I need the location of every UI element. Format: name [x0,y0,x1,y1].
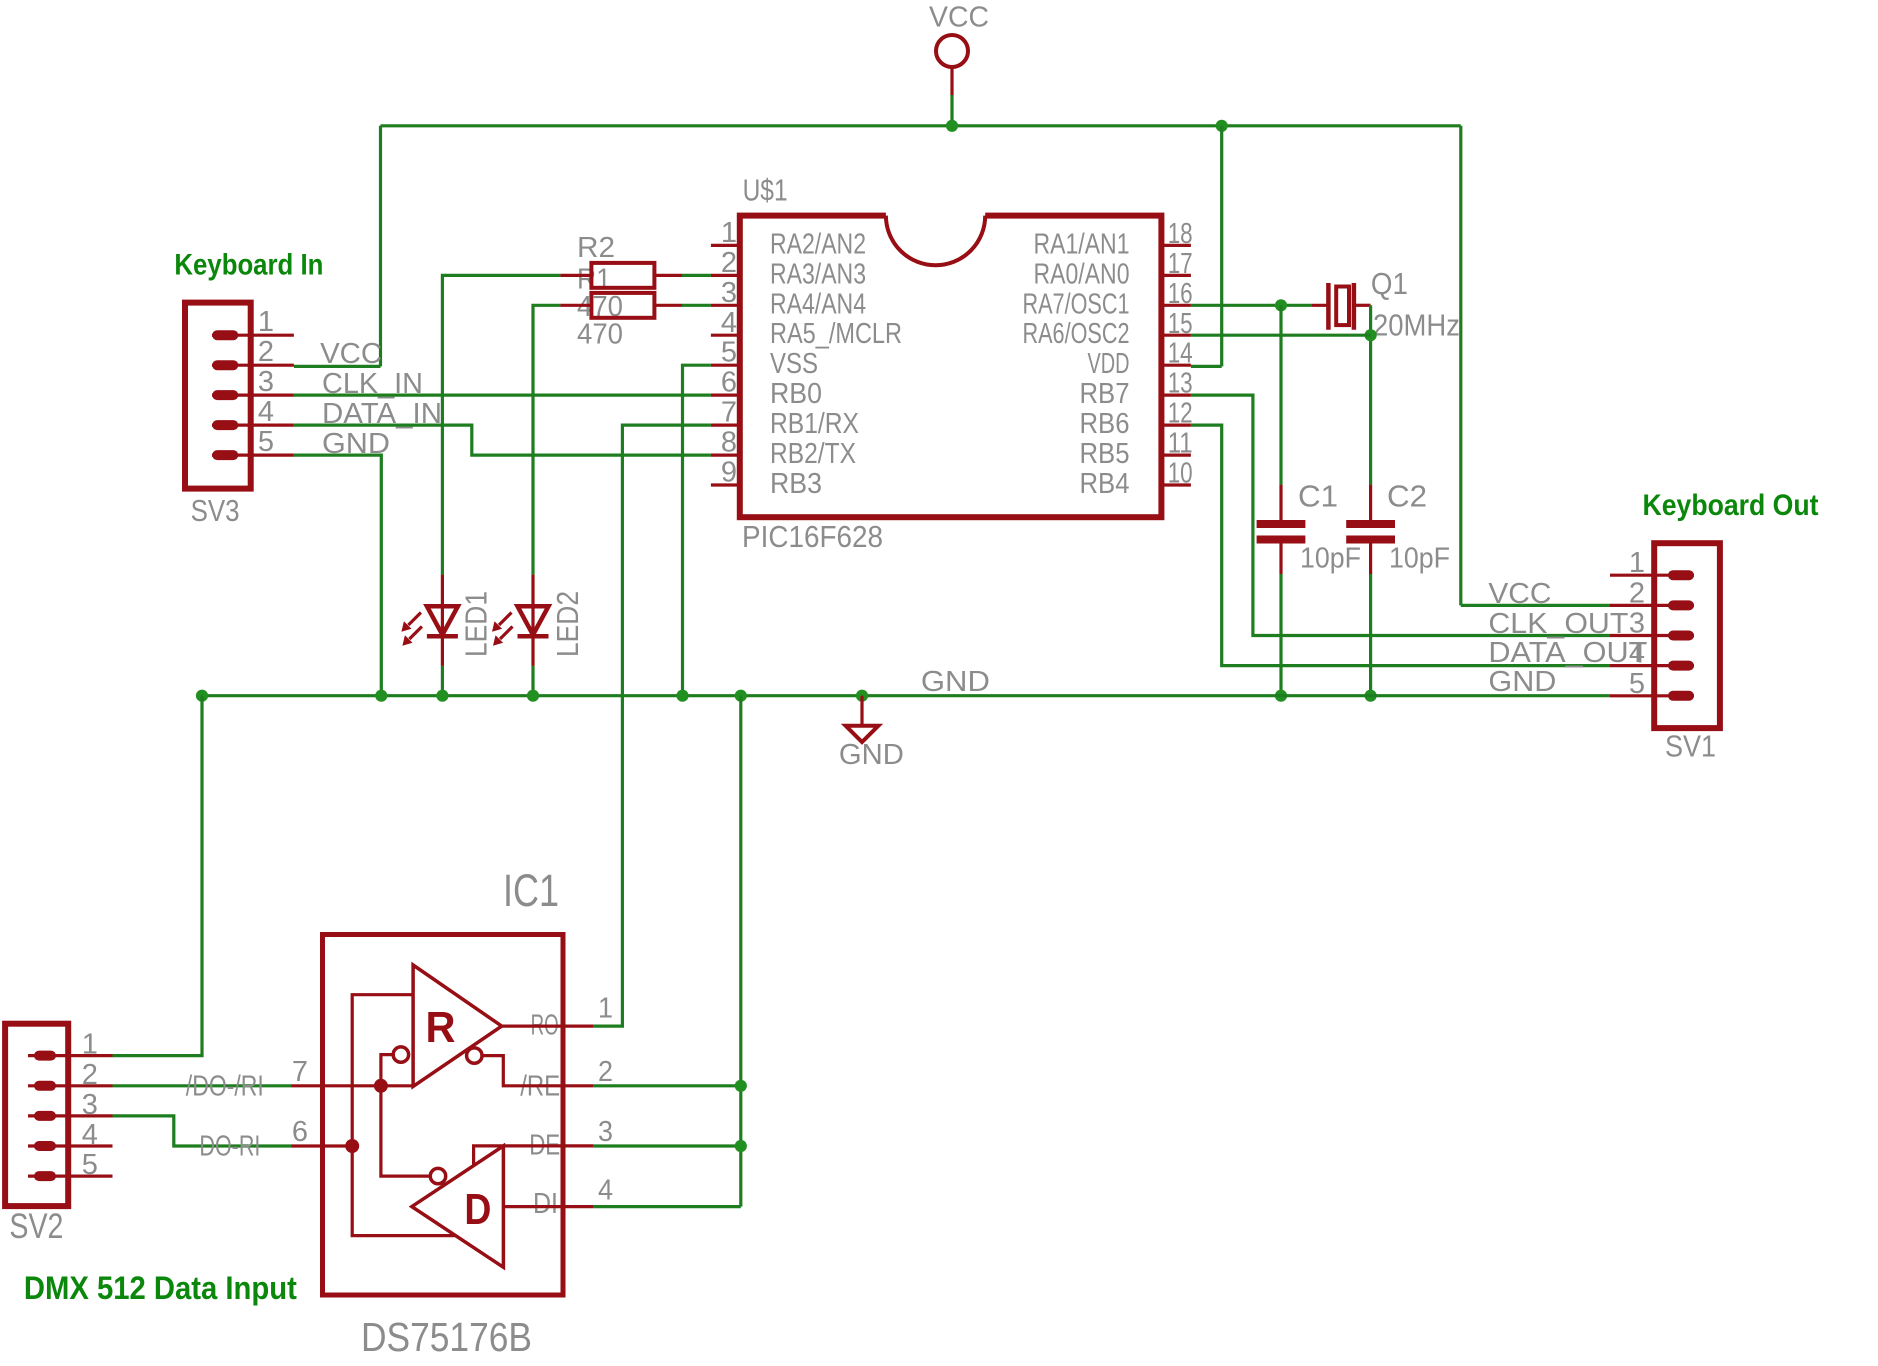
svg-text:Q1: Q1 [1371,266,1408,301]
svg-text:2: 2 [258,336,274,368]
connector SV1 pin 1 lead [1610,574,1694,577]
connector SV1 body [1654,543,1720,728]
svg-text:20MHz: 20MHz [1373,308,1460,343]
connector SV3 pin 5 lead [212,454,294,457]
wire RB1/RX to IC1 RO [593,425,711,1026]
svg-text:IC1: IC1 [503,865,559,916]
led LED2 anode pin [531,575,534,637]
junction VCC at VDD branch [1216,120,1228,132]
svg-text:DI: DI [533,1188,558,1220]
wire GND bus [202,694,1610,697]
ic IC1 pin 6 line [292,1144,353,1147]
svg-text:10pF: 10pF [1389,543,1450,575]
svg-text:7: 7 [721,397,737,429]
capacitor C1 bottom pin [1279,544,1282,575]
wire SV3 pin2 VCC [294,365,381,368]
power symbol VCC pin stem [950,68,953,97]
svg-text:7: 7 [292,1056,308,1088]
power symbol VCC circle [936,35,968,67]
wire C1 to GND bus [1279,574,1282,696]
connector SV2 body [5,1024,68,1206]
connector SV2 pin 3 pad [39,1111,51,1121]
connector SV3 pin 1 lead [212,334,294,337]
svg-text:RB2/TX: RB2/TX [770,438,856,470]
connector SV2 pin 1 lead [28,1054,113,1057]
capacitor C2 plate 1 [1346,520,1395,528]
wire R1 to PIC pin3 [682,304,711,307]
svg-text:2: 2 [721,247,737,279]
capacitor C2 top pin [1369,485,1372,521]
connector SV3 pin 4 pad [217,420,233,430]
ic U$1 pin 3 stub [711,304,740,307]
svg-text:15: 15 [1168,308,1193,340]
svg-text:RA5_/MCLR: RA5_/MCLR [770,318,902,350]
led LED2 cathode bar [518,634,549,639]
crystal Q1 left plate [1326,283,1331,330]
svg-text:DO-RI: DO-RI [199,1131,260,1163]
wire DATA_IN SV3 pin4 [294,425,711,455]
led LED2 triangle [518,606,549,635]
crystal Q1 right pin [1355,304,1370,307]
svg-text:/DO-/RI: /DO-/RI [186,1071,264,1103]
ic U$1 pin 11 stub [1161,454,1191,457]
svg-text:SV1: SV1 [1665,729,1716,764]
svg-text:Keyboard Out: Keyboard Out [1643,489,1819,522]
svg-text:GND: GND [1488,666,1556,698]
led LED2 cathode pin [531,636,534,666]
svg-text:4: 4 [258,396,274,428]
svg-text:LED1: LED1 [459,591,494,657]
led LED2 arrow 2 [493,627,513,646]
svg-text:1: 1 [721,217,737,249]
svg-text:18: 18 [1168,218,1193,250]
svg-text:8: 8 [721,427,737,459]
ic IC1 receiver triangle [413,965,502,1087]
svg-text:RA3/AN3: RA3/AN3 [770,258,866,290]
resistor R1 right pin [654,304,682,307]
wire RA4 net R1 left [533,305,560,574]
junction GND bus VSS [676,690,688,702]
svg-text:VSS: VSS [770,348,818,380]
svg-text:3: 3 [82,1089,98,1121]
svg-text:470: 470 [577,319,623,351]
svg-text:RA2/AN2: RA2/AN2 [770,228,866,260]
ground symbol triangle [846,726,879,742]
ic IC1 junction pin7 [374,1079,388,1093]
connector SV2 pin 5 pad [39,1171,51,1181]
crystal Q1 left pin [1311,304,1327,307]
led LED1 anode pin [441,575,444,637]
wire VCC rail right vertical to SV1 [1459,126,1462,606]
wire VDD vertical [1220,126,1223,367]
connector SV3 pin 3 lead [212,394,294,397]
ic IC1 driver enable bubble [430,1168,445,1183]
wire CLK_IN SV3 pin3 to RB0 [294,394,711,397]
svg-text:2: 2 [598,1056,613,1088]
wire VCC rail left vertical to SV3 [379,126,382,367]
svg-text:1: 1 [258,306,274,338]
svg-text:6: 6 [292,1116,308,1148]
ic IC1 DE path [474,1146,594,1165]
ic U$1 pin 8 stub [711,454,740,457]
svg-text:3: 3 [1629,608,1645,640]
wire DATA_OUT from RB6 [1191,425,1610,665]
connector SV3 pin 1 pad [217,330,233,340]
wire /RE to GND net [593,1084,740,1087]
junction OSC1 C1 branch [1275,299,1287,311]
connector SV1 pin 3 lead [1610,634,1694,637]
ic U$1 pin 13 stub [1161,394,1191,397]
svg-text:RB1/RX: RB1/RX [770,408,859,440]
svg-text:D: D [464,1185,491,1234]
ic U$1 pin 12 stub [1161,424,1191,427]
svg-text:DATA_OUT: DATA_OUT [1488,637,1647,669]
wire VSS pin5 to GND [683,365,711,696]
svg-text:1: 1 [598,993,613,1025]
ic IC1 junction pin6 [345,1139,359,1153]
ic U$1 pin 5 stub [711,364,740,367]
ic U$1 pin 2 stub [711,274,740,277]
led LED1 arrow 1 [401,613,421,632]
svg-text:LED2: LED2 [550,591,585,657]
wire C2 to GND bus [1369,574,1372,696]
wire GND from SV3 pin5 [294,455,381,696]
capacitor C1 plate 2 [1257,536,1306,544]
wire OSC1 pin16 [1191,304,1311,307]
wire VCC to SV1 pin2 [1461,604,1610,607]
ic IC1 DI line [503,1205,593,1208]
junction OSC2 pin15 [1365,329,1377,341]
svg-text:5: 5 [82,1149,98,1181]
svg-text:RA6/OSC2: RA6/OSC2 [1023,318,1130,350]
svg-text:GND: GND [839,739,904,771]
svg-text:RB0: RB0 [770,378,822,410]
ic U$1 pin 7 stub [711,424,740,427]
ic IC1 pin 7 line [292,1084,414,1087]
junction GND bus LED2 [527,690,539,702]
ic U$1 notch arc [886,216,985,266]
wire R2 to PIC pin2 [682,274,711,277]
connector SV3 pin 2 lead [212,364,294,367]
svg-text:CLK_OUT: CLK_OUT [1488,608,1628,640]
svg-text:RA7/OSC1: RA7/OSC1 [1023,288,1130,320]
svg-text:RB6: RB6 [1080,408,1130,440]
ic U$1 pin 16 stub [1161,304,1191,307]
junction C2 GND [1365,690,1377,702]
svg-text:C1: C1 [1298,479,1338,514]
connector SV1 pin 4 lead [1610,664,1694,667]
connector SV1 pin 5 pad [1673,691,1689,701]
svg-text:11: 11 [1168,428,1193,460]
wire OSC2 vertical to C2 [1369,305,1372,484]
ic IC1 /RE path [482,1056,593,1086]
connector SV2 pin 2 lead [28,1084,113,1087]
svg-text:VCC: VCC [929,2,989,34]
ic IC1 receiver input line [352,995,455,1236]
ic U$1 notch erase [886,212,985,265]
ic IC1 body [323,935,564,1296]
svg-text:3: 3 [258,366,274,398]
ic U$1 pin 18 stub [1161,244,1191,247]
ic U$1 pin 6 stub [711,394,740,397]
svg-text:14: 14 [1168,338,1193,370]
svg-text:C2: C2 [1387,479,1427,514]
svg-text:10: 10 [1168,458,1193,490]
ic U$1 pin 10 stub [1161,483,1191,486]
svg-text:RA0/AN0: RA0/AN0 [1034,258,1130,290]
connector SV3 body [185,303,251,489]
junction DE [735,1140,747,1152]
svg-text:RB5: RB5 [1080,438,1130,470]
svg-text:DS75176B: DS75176B [361,1314,532,1360]
svg-text:1: 1 [82,1029,98,1061]
ic IC1 RO line [502,1024,594,1027]
ic IC1 receiver output-enable bubble [467,1048,482,1063]
capacitor C2 plate 2 [1346,536,1395,544]
connector SV2 pin 5 lead [28,1174,113,1177]
svg-text:3: 3 [598,1116,613,1148]
svg-text:SV2: SV2 [9,1207,63,1246]
svg-text:13: 13 [1168,368,1193,400]
junction VCC at stem [946,120,958,132]
connector SV2 pin 3 lead [28,1114,113,1117]
svg-text:DMX 512 Data Input: DMX 512 Data Input [24,1270,297,1306]
svg-text:2: 2 [1629,577,1645,609]
junction C1 GND [1275,690,1287,702]
ic U$1 pin 9 stub [711,483,740,486]
junction GND bus LED1 [436,690,448,702]
svg-text:RB4: RB4 [1080,468,1130,500]
connector SV2 pin 1 pad [39,1051,51,1061]
ic U$1 pin 17 stub [1161,274,1191,277]
svg-text:RA1/AN1: RA1/AN1 [1034,228,1130,260]
connector SV1 pin 2 pad [1673,600,1689,610]
svg-text:4: 4 [598,1175,613,1207]
ic IC1 receiver enable bubble [393,1047,408,1062]
connector SV2 pin 2 pad [39,1081,51,1091]
connector SV3 pin 2 pad [217,360,233,370]
ic U$1 pin 1 stub [711,244,740,247]
ic U$1 pin 4 stub [711,334,740,337]
svg-text:VCC: VCC [320,338,382,370]
svg-text:R2: R2 [577,232,615,264]
svg-text:R: R [426,1003,456,1052]
svg-text:U$1: U$1 [743,173,788,208]
svg-text:GND: GND [921,666,990,698]
connector SV3 pin 3 pad [217,390,233,400]
ground symbol stem [860,696,863,726]
wire DE to GND net [593,1144,740,1147]
capacitor C2 bottom pin [1369,544,1372,575]
svg-text:RB3: RB3 [770,468,822,500]
led LED2 arrow 1 [492,613,512,632]
svg-text:RB7: RB7 [1080,378,1130,410]
svg-text:6: 6 [721,367,737,399]
ic U$1 body [740,216,1162,518]
svg-text:PIC16F628: PIC16F628 [742,519,883,554]
junction GND bus SV2 corner [196,690,208,702]
wire SV2 pin1 to GND bus [113,696,203,1056]
wire VDD horizontal to pin 14 [1191,365,1222,368]
capacitor C1 top pin [1279,485,1282,521]
wire VCC rail top horizontal [381,124,1461,127]
wire DO-RI [113,1116,292,1146]
junction GND bus SV3 [375,690,387,702]
svg-text:2: 2 [82,1059,98,1091]
svg-text:4: 4 [82,1119,98,1151]
svg-text:10pF: 10pF [1300,543,1361,575]
svg-text:9: 9 [721,457,737,489]
led LED1 arrow 2 [402,627,422,646]
svg-text:1: 1 [1629,547,1645,579]
svg-text:VCC: VCC [1488,578,1551,610]
svg-text:SV3: SV3 [191,493,240,528]
wire RA3 net R2 left [442,275,560,574]
ic U$1 pin 14 stub [1161,364,1191,367]
wire GND enable vertical [739,696,742,1207]
crystal Q1 body [1336,287,1349,326]
connector SV1 pin 4 pad [1673,661,1689,671]
wire LED1 cathode to GND bus [441,666,444,696]
led LED1 cathode bar [427,634,458,639]
connector SV1 pin 3 pad [1673,631,1689,641]
wire VCC stem to rail [950,95,953,126]
svg-text:RA4/AN4: RA4/AN4 [770,288,866,320]
led LED1 triangle [427,606,458,635]
resistor R1 left pin [560,304,591,307]
ic IC1 driver triangle [412,1146,504,1267]
svg-text:12: 12 [1168,398,1193,430]
wire C1 vertical [1279,305,1282,484]
capacitor C1 plate 1 [1257,520,1306,528]
wire pin15 horizontal [1191,334,1371,337]
svg-text:4: 4 [721,307,737,339]
connector SV1 pin 1 pad [1673,570,1689,580]
led LED1 cathode pin [441,636,444,666]
resistor R2 body [591,263,654,288]
junction /RE [735,1080,747,1092]
ic U$1 pin 15 stub [1161,334,1191,337]
junction GND bus IC1 enables [735,690,747,702]
ic IC1 enable link [381,1055,430,1177]
svg-text:16: 16 [1168,278,1193,310]
wire CLK_OUT from RB7 [1191,395,1610,635]
svg-text:17: 17 [1168,248,1193,280]
connector SV3 pin 5 pad [217,450,233,460]
crystal Q1 right plate [1352,283,1357,330]
resistor R2 right pin [654,274,682,277]
wire DI to GND net [593,1205,740,1208]
wire /DO-/RI [113,1084,292,1087]
svg-text:5: 5 [1629,668,1645,700]
resistor R2 left pin [560,274,591,277]
svg-text:5: 5 [721,337,737,369]
connector SV1 pin 2 lead [1610,604,1694,607]
connector SV1 pin 5 lead [1610,694,1694,697]
svg-text:3: 3 [721,277,737,309]
svg-text:5: 5 [258,426,274,458]
svg-text:Keyboard In: Keyboard In [174,249,323,282]
junction GND bus symbol [856,690,868,702]
resistor R1 body [591,293,654,318]
connector SV2 pin 4 pad [39,1141,51,1151]
svg-text:VDD: VDD [1088,348,1130,380]
connector SV2 pin 4 lead [28,1144,113,1147]
connector SV3 pin 4 lead [212,424,294,427]
wire LED2 cathode to GND bus [531,666,534,696]
